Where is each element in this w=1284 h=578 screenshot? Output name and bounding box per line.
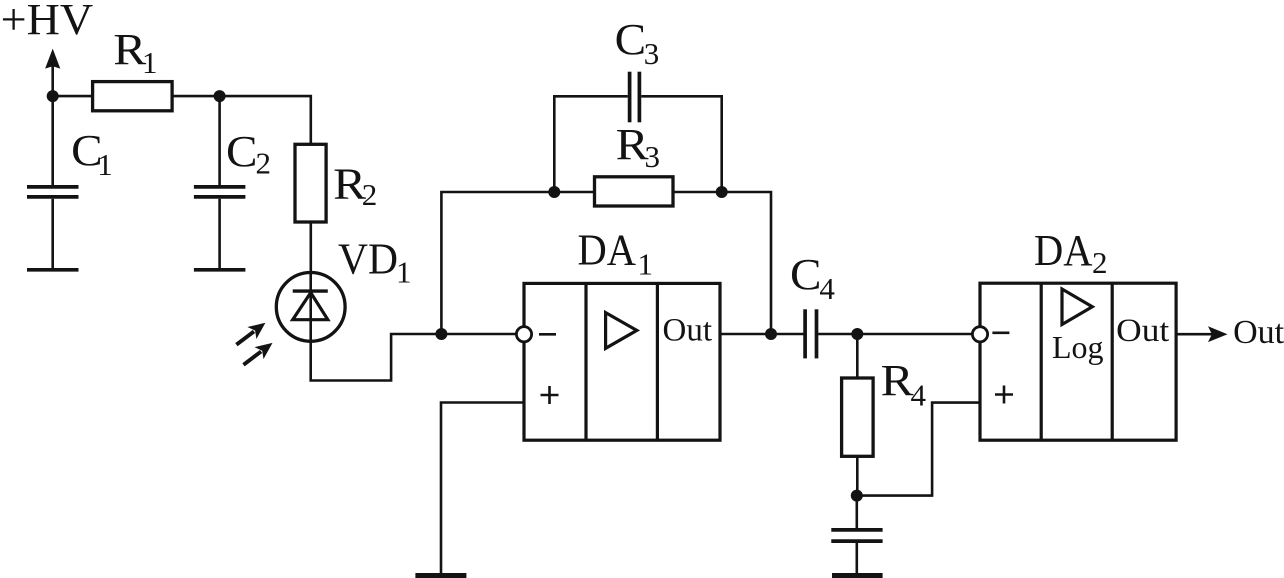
node dot feedback left (R3/C3 left) [548,186,560,198]
svg-text:VD: VD [338,234,398,283]
svg-text:Out: Out [1116,313,1169,349]
svg-text:2: 2 [256,145,272,180]
wire node C to DA1 inverting input [441,333,516,336]
light arrow 2 into VD1 [244,343,273,365]
svg-text:3: 3 [644,36,660,71]
svg-text:4: 4 [819,271,835,306]
+HV arrow [45,49,60,96]
DA2 plus sign [995,386,1013,404]
resistor R3 [554,177,721,206]
node B junction dot (R1 / C2 / R2) [214,90,226,102]
vertical wire to C3 left [554,96,628,192]
resistor R2 [295,144,326,222]
svg-text:C: C [615,15,647,64]
svg-text:2: 2 [1092,245,1108,280]
ground bar of C2 [194,268,246,272]
svg-text:DA: DA [578,225,637,274]
light arrow 1 into VD1 [236,323,265,345]
DA2 amplifier triangle [1062,289,1092,325]
node F junction dot (R4 / DA2 plus / C5) [851,490,863,502]
svg-text:DA: DA [1034,226,1093,275]
ground bar below DA1 plus input [415,573,466,578]
wire VD1 bottom to input node [311,334,442,381]
feedback wire left vertical [441,192,554,334]
svg-text:+HV: +HV [1,0,94,44]
resistor R4 [842,378,874,456]
wire node E to DA2 inverting input [857,333,973,336]
node D junction dot (output node) [765,328,777,340]
wire DA1 output to node D [720,333,771,336]
svg-text:Out: Out [1233,314,1284,351]
wire C3 right to right vertical [641,96,722,192]
node E junction dot (C4 / R4 / DA2) [851,328,863,340]
node A junction dot (+HV / R1 / C1) [47,90,59,102]
svg-text:Log: Log [1052,329,1104,365]
capacitor C2 [194,96,246,268]
DA1 inverting input open circle [516,327,531,342]
op-amp DA2 box [980,283,1176,440]
svg-text:4: 4 [911,377,927,412]
wire node E down to R4 [856,334,859,378]
svg-text:2: 2 [362,177,378,212]
svg-text:1: 1 [396,254,412,289]
feedback wire right vertical to output node [722,192,771,334]
svg-text:C: C [226,127,258,176]
DA2 inverting input open circle [972,327,987,342]
capacitor C1 [27,96,79,268]
svg-text:1: 1 [97,147,113,182]
wire C4 to node E [818,333,857,336]
svg-text:Out: Out [663,312,713,348]
wire R2 to VD1 [309,222,312,273]
DA1 minus sign [539,333,556,336]
DA2 minus sign [992,331,1009,334]
ground bar of C1 [27,268,79,272]
wire R1 to node B [172,95,220,98]
capacitor C4 [805,309,816,358]
node dot feedback right (R3/C3 right) [716,186,728,198]
wire node F to DA2 plus input [857,403,979,496]
svg-text:R: R [881,356,915,405]
capacitor C5 (unlabeled, below R4) [831,496,882,574]
capacitor C3 [630,72,640,123]
node C junction dot (input node) [435,328,447,340]
output arrowhead [1208,326,1228,342]
DA1 plus sign [541,386,559,404]
DA1 plus input wire to ground [441,403,524,575]
wire node D to C4 [771,333,804,336]
svg-text:C: C [790,250,822,299]
wire node A to R1 [53,95,93,98]
ground bar below capacitor C5 [832,573,883,578]
svg-text:1: 1 [638,247,654,282]
op-amp DA1 box [524,283,720,440]
DA1 amplifier triangle [606,313,637,349]
photodiode VD1 [276,273,345,342]
output arrow wire [1176,333,1212,336]
resistor R1 [93,82,173,111]
svg-text:3: 3 [645,139,661,174]
wire node B to R2 top corner [220,96,311,144]
wire R4 to node F [856,456,859,495]
svg-text:1: 1 [142,45,158,80]
